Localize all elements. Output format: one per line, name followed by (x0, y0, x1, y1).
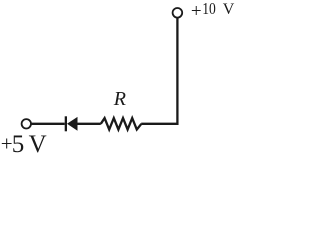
terminal +10V (open circle) (173, 8, 183, 18)
wire (resistor to diode anode) (77, 123, 101, 125)
wire (vertical from +10V terminal down to corner, then horizontal to resistor) (141, 18, 177, 124)
svg-text:+5V: +5V (1, 131, 47, 157)
diode (cathode bar at left, triangle pointing left) (65, 116, 78, 131)
svg-text:R: R (113, 88, 126, 110)
terminal +5V (open circle) (22, 119, 31, 128)
svg-text:+10V: +10V (191, 0, 235, 22)
wire (diode cathode to +5V terminal) (31, 123, 65, 125)
resistor R (zigzag) (101, 118, 142, 129)
